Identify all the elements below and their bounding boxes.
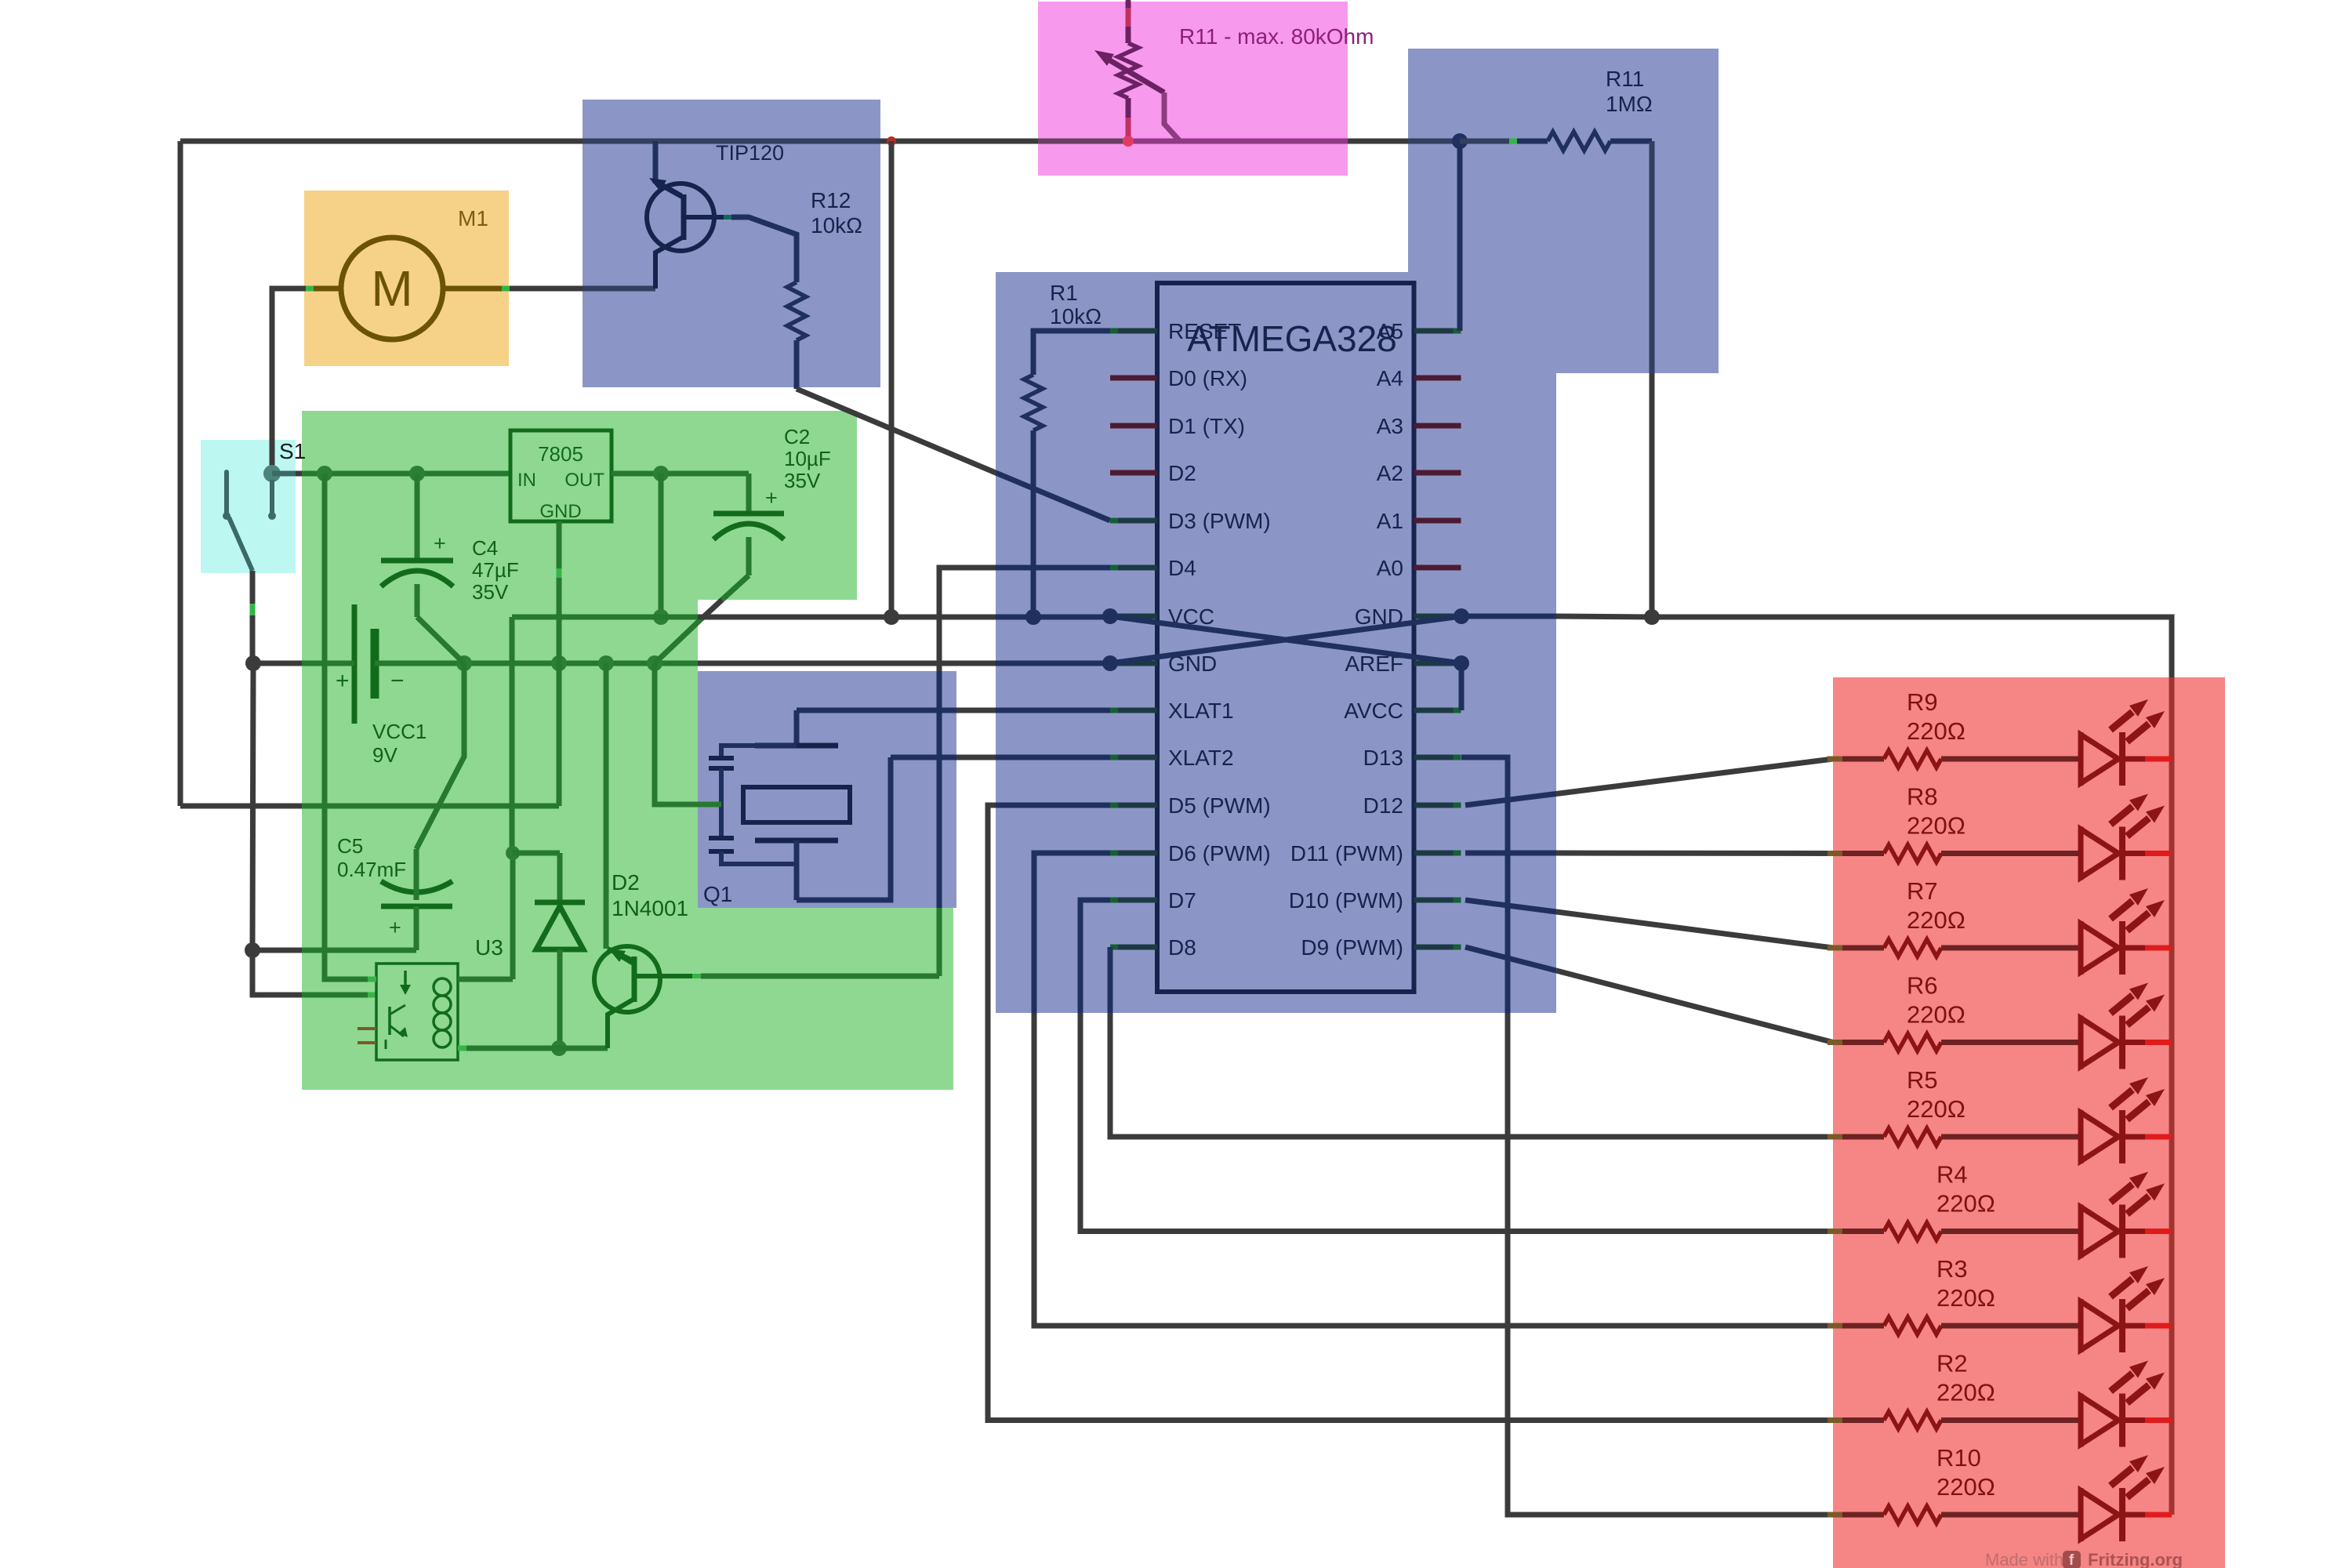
wire red junction dot on top rail xyxy=(887,136,896,146)
wire vertical from top rail down to VCC rail x=1137 xyxy=(889,141,895,617)
junction battery rail C5-branch xyxy=(456,655,472,671)
wire S1 lever down to battery rail xyxy=(250,571,256,600)
svg-text:D2: D2 xyxy=(1168,461,1196,485)
motor M1 symbol xyxy=(341,238,443,339)
LED 3 arrows xyxy=(2111,901,2132,919)
pin D1 (TX) (left) xyxy=(1110,423,1157,429)
LED 3 cathode wire xyxy=(2122,946,2145,951)
wire VCC rail gray part xyxy=(698,615,996,620)
svg-text:220Ω: 220Ω xyxy=(1936,1284,1995,1312)
svg-text:OUT: OUT xyxy=(564,470,604,491)
wire D6 to R3 row xyxy=(1034,853,1110,1013)
wire battery rail right segment xyxy=(375,661,698,666)
svg-text:0.47mF: 0.47mF xyxy=(337,858,406,881)
wire U3 right-top to D2 node xyxy=(458,977,513,982)
wire VCC-AREF crossover xyxy=(1110,616,1461,663)
opto relay U3 phototransistor xyxy=(388,1007,391,1035)
svg-text:10kΩ: 10kΩ xyxy=(811,213,862,238)
wire D10 to R7 row xyxy=(1465,900,1556,912)
pin A5 (right) xyxy=(1414,328,1461,334)
wire C4 to battery rail (diagonal) xyxy=(417,617,464,663)
opto relay U3 coil xyxy=(434,978,451,996)
junction D2 node xyxy=(506,846,520,860)
svg-text:−: − xyxy=(390,668,405,694)
svg-text:D8: D8 xyxy=(1168,935,1196,960)
highlight box: blue crystal Q1 xyxy=(698,671,956,908)
wire battery rail down to C5 top xyxy=(416,663,464,849)
LED 7 cathode wire xyxy=(2122,1323,2145,1329)
wire GND row to LED bus corner xyxy=(1652,617,2172,677)
highlight box: blue ATMEGA328 xyxy=(996,272,1556,1013)
svg-text:+: + xyxy=(765,486,778,510)
svg-text:D0 (RX): D0 (RX) xyxy=(1168,366,1247,390)
svg-text:TIP120: TIP120 xyxy=(716,141,784,165)
highlight box: red LED array xyxy=(1833,677,2225,1568)
LED 8 xyxy=(1941,1417,2081,1423)
wire motor right to TIP120 emitter xyxy=(510,286,583,292)
regulator 7805 xyxy=(510,430,612,521)
pot R11 bottom pin xyxy=(1126,98,1131,118)
wire TIP120 base to R12 xyxy=(731,217,797,282)
junction battery rail transistor collector xyxy=(598,655,614,671)
LED 2 cathode wire xyxy=(2122,851,2145,856)
pin D8 (left) xyxy=(1110,945,1157,950)
wire motor left to switch S1 xyxy=(272,289,306,469)
svg-text:A0: A0 xyxy=(1377,556,1403,580)
pot R11 wiper arrow xyxy=(1109,60,1164,93)
wire RESET to R1 xyxy=(1033,331,1110,375)
junction VCC pin xyxy=(1102,608,1118,624)
svg-text:+: + xyxy=(336,668,350,694)
LED 1 xyxy=(1941,757,2081,762)
wire OUT dot down to VCC rail xyxy=(659,474,664,617)
svg-text:R10: R10 xyxy=(1936,1444,1981,1472)
svg-text:D7: D7 xyxy=(1168,888,1196,913)
resistor R7 xyxy=(1828,946,1842,951)
svg-text:D1 (TX): D1 (TX) xyxy=(1168,414,1245,438)
wire D12 to R9 row xyxy=(1465,794,1556,806)
pin A2 (right) xyxy=(1414,470,1461,476)
switch S1 top terminal dot xyxy=(263,465,281,482)
crystal Q1 bottom pin xyxy=(794,840,800,900)
pin RESET (left) xyxy=(1110,328,1157,334)
svg-text:220Ω: 220Ω xyxy=(1936,1190,1995,1218)
svg-text:Fritzing.org: Fritzing.org xyxy=(2088,1550,2183,1568)
svg-text:220Ω: 220Ω xyxy=(1907,812,1965,840)
LED 5 xyxy=(1941,1134,2081,1140)
svg-text:10kΩ: 10kΩ xyxy=(1050,304,1102,328)
chip ATMEGA328 body xyxy=(1157,283,1414,992)
wire A5 net down xyxy=(1457,141,1463,331)
svg-text:M1: M1 xyxy=(458,206,488,230)
svg-text:R2: R2 xyxy=(1936,1350,1968,1377)
wire D11 to R8 row xyxy=(1465,851,1556,856)
pin GND (left) xyxy=(1110,661,1157,666)
svg-text:47µF: 47µF xyxy=(472,558,519,582)
wire R12 to D3 pin (diagonal) xyxy=(794,340,800,389)
svg-text:A1: A1 xyxy=(1377,509,1403,533)
svg-text:C5: C5 xyxy=(337,834,363,858)
pin A1 (right) xyxy=(1414,518,1461,524)
wire diode anode to transistor emitter xyxy=(559,1046,608,1051)
transistor (opto driver) symbol xyxy=(594,946,660,1012)
svg-text:220Ω: 220Ω xyxy=(1936,1473,1995,1501)
LED 2 arrows xyxy=(2111,807,2132,825)
svg-text:D12: D12 xyxy=(1363,793,1403,818)
motor right pin leg xyxy=(444,286,502,292)
junction AREF pin xyxy=(1454,655,1469,671)
pot R11 red endpoint dot xyxy=(1123,136,1134,147)
wire U3 right-bottom to diode anode xyxy=(458,1046,466,1051)
diode D2 xyxy=(535,900,585,906)
junction VCC rail dots xyxy=(884,609,899,625)
svg-text:R7: R7 xyxy=(1907,877,1938,905)
svg-text:7805: 7805 xyxy=(538,442,583,466)
junction rail dot 1 xyxy=(317,466,332,481)
wire D13 to R10 row xyxy=(1461,757,1508,1013)
LED 8 arrows xyxy=(2111,1374,2132,1392)
resistor R11 body xyxy=(1548,132,1610,151)
svg-text:D9 (PWM): D9 (PWM) xyxy=(1301,935,1403,960)
LED 8 cathode wire xyxy=(2122,1417,2145,1423)
svg-text:+: + xyxy=(389,916,401,939)
capacitor C2 xyxy=(746,474,752,514)
junction GND row xyxy=(1644,609,1660,625)
junction diode anode xyxy=(551,1040,567,1056)
svg-text:R9: R9 xyxy=(1907,688,1938,716)
svg-text:VCC1: VCC1 xyxy=(372,720,426,743)
pin XLAT2 (left) xyxy=(1110,755,1157,760)
svg-text:D3 (PWM): D3 (PWM) xyxy=(1168,509,1271,533)
svg-text:C2: C2 xyxy=(784,425,810,448)
switch S1 left pin xyxy=(224,472,229,514)
LED 6 cathode wire xyxy=(2122,1229,2145,1234)
wire top rail pink box to R11 box xyxy=(1348,139,1408,144)
opto relay U3 unconnected pins xyxy=(358,1027,376,1030)
transistor TIP120 collector wire from top rail xyxy=(653,141,659,183)
LED 9 cathode wire xyxy=(2122,1512,2145,1518)
resistor R6 xyxy=(1828,1040,1842,1045)
svg-text:9V: 9V xyxy=(372,743,397,767)
LED 2 xyxy=(1941,851,2081,856)
wire R11 net down to GND row xyxy=(1650,141,1655,373)
highlight box: blue R11 xyxy=(1408,49,1719,373)
resistor R4 xyxy=(1828,1229,1842,1234)
wire C5 node to U3 pin2 xyxy=(252,950,302,995)
svg-text:10µF: 10µF xyxy=(784,447,831,470)
transistor arrow xyxy=(608,949,626,962)
motor left pin leg xyxy=(314,286,341,292)
wire base to D4 xyxy=(701,974,939,979)
pin D0 (RX) (left) xyxy=(1110,376,1157,381)
svg-text:R8: R8 xyxy=(1907,783,1938,811)
highlight box: green power supply (left column) xyxy=(302,600,698,908)
svg-text:R11: R11 xyxy=(1606,67,1644,91)
resistor R5 xyxy=(1828,1134,1842,1140)
resistor R2 xyxy=(1828,1417,1842,1423)
resistor R12 xyxy=(787,282,806,340)
LED 1 arrows xyxy=(2111,712,2132,730)
wire AREF to AVCC xyxy=(1459,663,1465,710)
LED 4 arrows xyxy=(2111,996,2132,1014)
wire 7805 GND horizontal run y=1028 (white part) xyxy=(180,804,302,809)
svg-text:C4: C4 xyxy=(472,536,498,560)
resistor R9 xyxy=(1828,757,1842,762)
wire C5 node right to C5 bottom xyxy=(252,948,302,953)
switch S1 right pin xyxy=(270,480,274,513)
svg-text:A2: A2 xyxy=(1377,461,1403,485)
svg-text:D4: D4 xyxy=(1168,556,1196,580)
opto relay U3 LED arrow xyxy=(404,971,407,986)
pin D13 (right) xyxy=(1414,755,1461,760)
wire S1 to 7805 IN rail xyxy=(272,471,296,477)
svg-text:220Ω: 220Ω xyxy=(1907,1095,1965,1123)
LED GND bus (inside red box) xyxy=(2169,677,2175,1515)
wire VCC rail green part xyxy=(510,617,515,853)
pin D2 (left) xyxy=(1110,470,1157,476)
wire 7805 GND pin down xyxy=(557,521,562,568)
svg-text:f: f xyxy=(2069,1552,2074,1568)
LED 6 xyxy=(1941,1229,2081,1234)
svg-text:S1: S1 xyxy=(279,439,306,463)
wire top rail to pink box xyxy=(880,139,1038,144)
resistor R8 xyxy=(1828,851,1842,856)
pin A4 (right) xyxy=(1414,376,1461,381)
LED 3 xyxy=(1941,946,2081,951)
transistor base lead xyxy=(634,974,692,978)
svg-text:+: + xyxy=(434,532,446,555)
pin D12 (right) xyxy=(1414,803,1461,808)
svg-text:R3: R3 xyxy=(1936,1255,1968,1283)
junction GND pin left xyxy=(1102,655,1118,671)
svg-text:1MΩ: 1MΩ xyxy=(1606,92,1653,116)
junction VCC rail green dot xyxy=(653,609,669,625)
svg-text:XLAT2: XLAT2 xyxy=(1168,746,1234,770)
wire transistor collector to battery rail xyxy=(604,663,609,949)
wire R1 to VCC rail xyxy=(1031,430,1036,617)
LED 5 arrows xyxy=(2111,1090,2132,1108)
capacitor C5 xyxy=(381,881,452,892)
svg-text:D11 (PWM): D11 (PWM) xyxy=(1290,841,1403,866)
svg-text:XLAT1: XLAT1 xyxy=(1168,699,1234,723)
wire top rail under pink box (pot to edge) xyxy=(1128,139,1348,144)
wire GND pin to junction xyxy=(1461,614,1556,619)
svg-text:Q1: Q1 xyxy=(703,882,732,906)
wire battery rail left segment xyxy=(253,661,302,666)
pin A3 (right) xyxy=(1414,423,1461,429)
pin D10 (PWM) (right) xyxy=(1414,898,1461,903)
pot R11 top pin xyxy=(1126,2,1131,9)
pin D4 (left) xyxy=(1110,565,1157,571)
svg-text:220Ω: 220Ω xyxy=(1907,1001,1965,1029)
highlight box: green power supply (top band) xyxy=(302,411,857,600)
junction A5 net dot xyxy=(1452,133,1468,149)
highlight box: pink potentiometer net xyxy=(1038,2,1348,176)
junction GND pin right xyxy=(1454,608,1469,624)
transistor TIP120 arrow on upper lead xyxy=(649,178,666,191)
pin D7 (left) xyxy=(1110,898,1157,903)
svg-text:RESET: RESET xyxy=(1168,319,1241,343)
svg-text:R1: R1 xyxy=(1050,281,1078,305)
resistor R3 xyxy=(1828,1323,1842,1329)
svg-text:220Ω: 220Ω xyxy=(1907,717,1965,745)
svg-text:D10 (PWM): D10 (PWM) xyxy=(1289,888,1403,913)
wire 7805 OUT rail xyxy=(612,471,749,477)
highlight box: green power supply (bottom band) xyxy=(302,908,953,1090)
wire left vertical x=230 (top corner down to GND tap) xyxy=(178,141,183,806)
junction battery rail 7805 GND xyxy=(551,655,567,671)
pin D11 (PWM) (right) xyxy=(1414,851,1461,856)
pin VCC (left) xyxy=(1110,614,1157,619)
pot R11 resistor body xyxy=(1118,43,1138,98)
wire XLAT1 to crystal top xyxy=(797,708,956,713)
resistor R10 xyxy=(1828,1512,1842,1518)
resistor R1 xyxy=(1024,375,1043,430)
wire D7 to R4 row xyxy=(1080,900,1110,1013)
wire crystal cap tap to battery rail xyxy=(655,663,721,804)
LED 1 cathode wire xyxy=(2122,757,2145,762)
junction OUT dot xyxy=(653,466,669,481)
wire 7805 GND horizontal run y=1028 (green part) xyxy=(302,804,559,809)
wire D5 to R2 row xyxy=(996,803,1110,808)
svg-text:220Ω: 220Ω xyxy=(1907,906,1965,934)
transistor TIP120 symbol xyxy=(647,183,714,251)
LED 9 arrows xyxy=(2111,1468,2132,1486)
svg-text:R12: R12 xyxy=(811,188,851,212)
svg-text:U3: U3 xyxy=(475,935,503,960)
highlight box: orange motor M1 xyxy=(304,191,509,366)
pin D3 (PWM) (left) xyxy=(1110,518,1157,524)
svg-text:Made with: Made with xyxy=(1985,1550,2063,1568)
svg-text:220Ω: 220Ω xyxy=(1936,1379,1995,1406)
pin AREF (right) xyxy=(1414,661,1461,666)
svg-text:D6 (PWM): D6 (PWM) xyxy=(1168,841,1271,866)
wire top rail under pink box (left of pot) xyxy=(1038,139,1128,144)
crystal load caps left xyxy=(721,746,797,758)
junction battery rail crystal tap xyxy=(647,655,662,671)
LED 6 arrows xyxy=(2111,1185,2132,1203)
highlight box: cyan switch S1 xyxy=(201,440,296,573)
svg-text:1N4001: 1N4001 xyxy=(612,896,688,920)
wire battery rail to chip GND (gray) xyxy=(698,661,996,666)
svg-text:D13: D13 xyxy=(1363,746,1403,770)
wire XLAT2 to crystal bottom xyxy=(797,757,891,900)
LED 7 xyxy=(1941,1323,2081,1329)
pin D9 (PWM) (right) xyxy=(1414,945,1461,950)
svg-text:35V: 35V xyxy=(472,580,509,604)
svg-text:GND: GND xyxy=(539,501,581,522)
wire GND-GND crossover xyxy=(1110,616,1461,663)
junction rail dot C4 xyxy=(409,466,425,481)
crystal Q1 electrodes xyxy=(755,743,838,749)
highlight box: blue TIP120 xyxy=(583,100,880,387)
LED 7 arrows xyxy=(2111,1279,2132,1297)
svg-text:A4: A4 xyxy=(1377,366,1403,390)
battery VCC1 symbol xyxy=(352,604,358,724)
wire D9 to R6 row xyxy=(1465,947,1556,971)
LED 9 xyxy=(1941,1512,2081,1518)
pin D6 (PWM) (left) xyxy=(1110,851,1157,856)
svg-text:D5 (PWM): D5 (PWM) xyxy=(1168,793,1271,818)
wire D8 to R5 row xyxy=(1108,947,1113,1013)
svg-text:A5: A5 xyxy=(1377,319,1403,343)
LED 5 cathode wire xyxy=(2122,1134,2145,1140)
pin XLAT1 (left) xyxy=(1110,708,1157,713)
wire top rail y=183 left part (gray) xyxy=(180,139,583,144)
wire top rail inside R11 box xyxy=(1408,139,1460,144)
LED 4 xyxy=(1941,1040,2081,1045)
svg-text:R4: R4 xyxy=(1936,1161,1968,1189)
svg-text:35V: 35V xyxy=(784,469,821,492)
capacitor C4 xyxy=(415,474,420,561)
pin A0 (right) xyxy=(1414,565,1461,571)
wire C2 to battery rail (diagonal crossing VCC rail) xyxy=(722,575,749,600)
pin D5 (PWM) (left) xyxy=(1110,803,1157,808)
svg-text:R6: R6 xyxy=(1907,972,1938,1000)
junction C5 node xyxy=(245,942,260,958)
svg-text:R5: R5 xyxy=(1907,1066,1938,1094)
pin GND (right) xyxy=(1414,614,1461,619)
junction battery rail left xyxy=(245,655,261,671)
svg-text:IN: IN xyxy=(517,470,536,491)
svg-text:M: M xyxy=(371,260,412,317)
svg-text:A3: A3 xyxy=(1377,414,1403,438)
switch S1 lever xyxy=(229,517,252,571)
wire to R11 resistor xyxy=(1460,139,1509,144)
opto relay U3 box xyxy=(376,964,458,1060)
wire U3 pin1 from IN rail xyxy=(325,474,368,979)
transistor TIP120 base lead xyxy=(684,215,724,220)
svg-text:AVCC: AVCC xyxy=(1344,699,1403,723)
LED 4 cathode wire xyxy=(2122,1040,2145,1045)
wire D2 node to diode xyxy=(513,851,560,856)
wire top rail inside TIP120 box xyxy=(583,139,880,144)
svg-text:D2: D2 xyxy=(612,870,640,895)
pot R11 wiper wire to rail xyxy=(1164,93,1180,141)
svg-text:R11 - max. 80kOhm: R11 - max. 80kOhm xyxy=(1179,24,1374,49)
pin AVCC (right) xyxy=(1414,708,1461,713)
wire R11 to corner xyxy=(1610,139,1652,144)
wire S1 net down to C5 node xyxy=(252,663,253,950)
